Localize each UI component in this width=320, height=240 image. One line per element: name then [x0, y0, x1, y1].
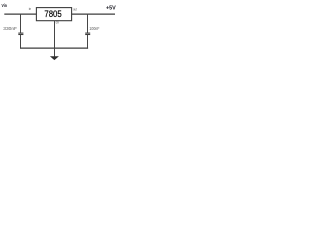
svg-text:Vin: Vin	[2, 3, 7, 9]
regulator U1 7805 body	[36, 8, 71, 21]
wire ground rail	[20, 47, 88, 49]
svg-text:7805: 7805	[44, 9, 61, 20]
wire U1 output to +5V	[72, 13, 115, 15]
capacitor C2 plates	[85, 32, 90, 34]
wire junction to C1 (top lead)	[20, 14, 22, 34]
wire rail to ground symbol	[54, 48, 56, 57]
wire junction to C2 (top lead)	[87, 14, 89, 34]
wire C1 bottom lead to ground rail	[20, 35, 22, 49]
wire C2 bottom lead to ground rail	[87, 35, 89, 49]
svg-text:100nF: 100nF	[89, 26, 99, 32]
background	[0, 0, 120, 71]
wire U1 com pin down to ground rail	[54, 21, 56, 49]
svg-text:com: com	[56, 21, 59, 25]
svg-text:out: out	[73, 7, 76, 11]
svg-text:in: in	[29, 7, 31, 11]
svg-text:330nF: 330nF	[3, 26, 17, 32]
ground symbol	[50, 56, 59, 60]
capacitor C1 plates	[18, 32, 23, 34]
wire Vin to U1 input	[4, 13, 37, 15]
svg-text:+5V: +5V	[106, 5, 117, 11]
